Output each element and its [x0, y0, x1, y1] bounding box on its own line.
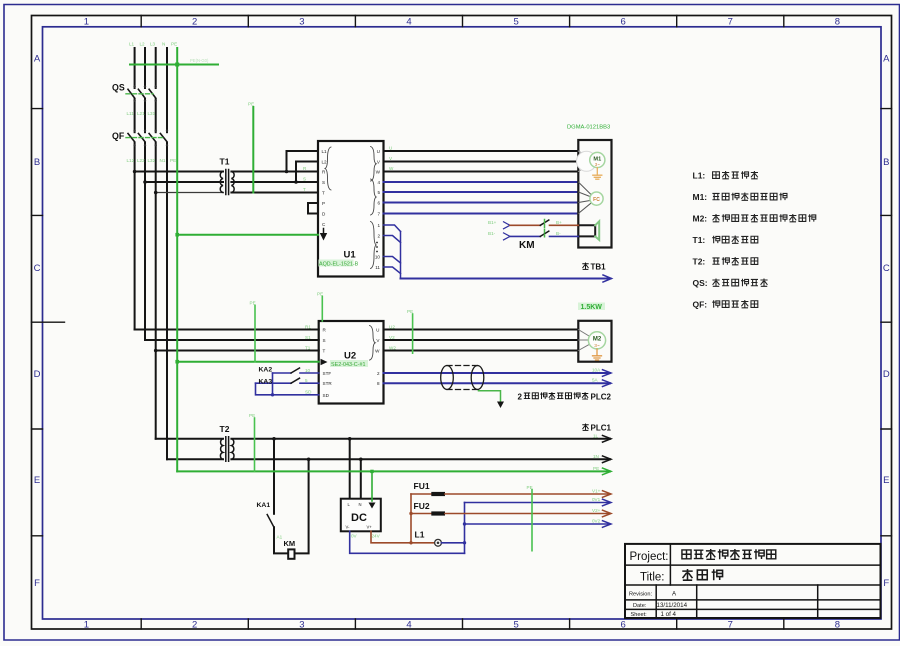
svg-text:PE: PE [407, 309, 413, 314]
svg-text:T1:: T1: [693, 235, 706, 245]
wire T1 primary bottom [156, 192, 223, 194]
U1 model strip [319, 260, 354, 267]
svg-text:A: A [883, 54, 890, 65]
junction 24V lamp [409, 541, 412, 544]
svg-text:PLC1: PLC1 [591, 424, 612, 433]
svg-text:8: 8 [377, 381, 380, 386]
wire brake - right [550, 235, 579, 237]
motor M2 [588, 332, 605, 349]
connector arrows brake supply [504, 222, 511, 229]
DC ground pin arrow [369, 503, 376, 509]
svg-text:C: C [34, 263, 41, 274]
svg-text:DC: DC [351, 512, 367, 524]
wire T1 secondary T [231, 192, 318, 194]
relay contact KA3 [256, 382, 292, 384]
svg-text:N: N [359, 502, 362, 507]
svg-text:STR: STR [323, 381, 333, 386]
junction line3/T1 [154, 191, 158, 195]
junction PE top [175, 63, 179, 67]
arrow PLC1 a [603, 436, 612, 443]
wire DC V+ brown [371, 531, 435, 543]
svg-text:PE: PE [170, 158, 176, 163]
svg-text:STF: STF [323, 371, 332, 376]
wire L2 phase vertical [144, 48, 146, 340]
svg-text:10: 10 [375, 254, 381, 259]
svg-text:S: S [323, 338, 326, 343]
U2 right brace motor [370, 326, 376, 361]
svg-text:7: 7 [728, 620, 733, 631]
svg-text:7: 7 [377, 211, 380, 216]
wire FU1 out [445, 493, 610, 495]
wire FU1 feed [411, 493, 431, 495]
junction line1/T1 [133, 170, 137, 174]
U1 ground pin arrow [323, 229, 325, 234]
junction line3/T [154, 349, 158, 353]
wire brake - [510, 235, 540, 237]
svg-text:2: 2 [377, 233, 380, 238]
wire DC V- blue [350, 531, 465, 553]
shield ground arrow [497, 402, 504, 409]
svg-text:P: P [322, 201, 325, 206]
wire FU2 out [445, 513, 610, 515]
title block [625, 544, 881, 618]
svg-text:B1-: B1- [488, 231, 496, 236]
junction tap L1 [285, 170, 289, 174]
svg-text:1N: 1N [593, 454, 599, 459]
svg-text:FU1: FU1 [414, 481, 430, 491]
svg-text:T1: T1 [220, 157, 230, 167]
M1 ground [593, 168, 602, 180]
green vertical T1 feeder [252, 107, 254, 193]
junction 24V FU2 [409, 512, 412, 515]
svg-text:T1: T1 [305, 345, 311, 350]
brake wires inside M1 [578, 225, 595, 236]
wire U1-FC encoder 5 [384, 191, 579, 193]
svg-text:FU2: FU2 [414, 501, 430, 511]
wire lamp to 0V [441, 542, 464, 544]
svg-text:D: D [34, 369, 41, 380]
svg-text:U2: U2 [389, 324, 395, 329]
U1 right brace CN1 [371, 222, 377, 269]
svg-text:T: T [303, 187, 306, 192]
svg-text:PE: PE [250, 301, 256, 306]
svg-text:A: A [34, 54, 41, 65]
net stub green M2 [412, 314, 414, 353]
svg-text:C: C [883, 263, 890, 274]
wire 0V out b [465, 523, 611, 525]
wire T2 secondary top to PLC1 [231, 438, 610, 440]
wire brake + right [550, 224, 579, 226]
svg-text:U: U [389, 146, 392, 151]
wire T1 secondary S [231, 181, 318, 183]
svg-text:T2: T2 [220, 424, 230, 434]
fuse FU2 [431, 511, 445, 515]
svg-text:0V2: 0V2 [592, 519, 601, 524]
net stub green U2 left [254, 306, 256, 362]
motor unit M2 box [578, 321, 611, 362]
svg-text:Project:: Project: [630, 551, 669, 563]
svg-text:W: W [375, 348, 380, 353]
net label TB1 [582, 262, 606, 271]
svg-text:V+: V+ [367, 525, 373, 530]
column numbers bottom [84, 620, 840, 631]
arrow 24V a [603, 491, 612, 498]
wire PE to U2 ground [177, 361, 319, 363]
svg-text:L11: L11 [127, 111, 135, 116]
wire T1 secondary R [231, 171, 318, 173]
svg-text:Sheet:: Sheet: [631, 612, 648, 618]
svg-text:N1: N1 [160, 158, 166, 163]
svg-text:QF: QF [112, 131, 125, 141]
svg-text:D: D [883, 369, 890, 380]
svg-text:3~: 3~ [595, 162, 600, 167]
legend row2 chars [712, 193, 787, 201]
svg-text:L1: L1 [322, 149, 328, 154]
arrow PLC2 b [603, 380, 612, 387]
junction 0V b [463, 522, 466, 525]
svg-text:24V: 24V [372, 534, 381, 539]
svg-text:QF:: QF: [693, 300, 708, 310]
svg-text:V2: V2 [389, 335, 395, 340]
wire U2-M2 U [384, 329, 579, 331]
svg-text:M1:: M1: [693, 192, 708, 202]
wire PE to U1 ground [177, 234, 318, 236]
wire T1 primary top [135, 171, 223, 173]
wire U1-M1 W [384, 171, 579, 173]
svg-text:W2: W2 [389, 345, 396, 350]
junction PE U1 [175, 233, 179, 237]
svg-text:QS:: QS: [693, 278, 708, 288]
svg-text:L1: L1 [415, 530, 425, 540]
brake horn [595, 221, 599, 240]
svg-text:TB1: TB1 [591, 263, 607, 272]
row ticks right band [881, 109, 892, 536]
wire T1 primary mid [145, 181, 223, 183]
svg-text:V: V [389, 156, 393, 161]
svg-text:SE2-043-C-#1: SE2-043-C-#1 [331, 362, 365, 368]
svg-text:5: 5 [305, 378, 308, 383]
legend row7 chars [712, 300, 758, 308]
svg-text:L3: L3 [150, 42, 156, 47]
power supply DC [341, 499, 381, 532]
inverter U2 [319, 321, 384, 404]
fuse FU1 [431, 492, 445, 496]
svg-text:L22: L22 [137, 158, 145, 163]
svg-text:6: 6 [621, 17, 626, 28]
svg-text:PE: PE [317, 292, 323, 297]
switch QS blades [128, 89, 156, 98]
M2 ground [593, 349, 602, 360]
wire U2-M2 V [384, 339, 579, 341]
svg-text:V1+: V1+ [592, 489, 601, 494]
svg-text:F: F [883, 578, 889, 589]
row letters right [883, 54, 890, 590]
svg-text:1: 1 [84, 620, 89, 631]
junction line2/T1 [143, 180, 147, 184]
svg-text:6: 6 [377, 200, 380, 205]
junction PE DC [370, 470, 373, 473]
svg-text:M2:: M2: [693, 214, 708, 224]
wire SD common [256, 373, 319, 395]
relay contact KA2 [273, 372, 292, 374]
breaker QF gaps [128, 133, 173, 142]
svg-text:S: S [322, 180, 325, 185]
breaker QF blades [128, 134, 167, 142]
U2 model strip [330, 360, 368, 367]
wire U1 CN1 cascade to TB1 [384, 225, 401, 279]
svg-text:10A: 10A [592, 368, 601, 373]
M1 white circle [577, 151, 597, 171]
svg-text:A: A [672, 591, 677, 598]
wire KA1 branch [273, 439, 275, 514]
svg-text:F: F [34, 578, 40, 589]
wire KM coil return [295, 459, 309, 553]
switch QS gaps [128, 89, 162, 98]
arrow PLC2 a [603, 370, 612, 377]
breaker QF terminal dots [133, 130, 168, 147]
cable note PLC2 [518, 392, 612, 401]
svg-text:7: 7 [728, 17, 733, 28]
svg-text:3: 3 [299, 620, 304, 631]
svg-text:W: W [376, 169, 381, 174]
svg-text:L2: L2 [140, 42, 146, 47]
svg-text:8: 8 [835, 620, 840, 631]
svg-text:L21: L21 [137, 111, 145, 116]
net stub green T2 [254, 418, 256, 471]
svg-text:R1: R1 [305, 324, 311, 329]
wire U1-FC encoder 7 [384, 213, 579, 215]
junction DC N [359, 458, 363, 462]
svg-text:KM: KM [284, 539, 296, 548]
wire L3-U2 T [156, 350, 319, 352]
svg-text:8: 8 [835, 17, 840, 28]
wire U1-M1 V [384, 161, 579, 163]
wire N vertical [166, 48, 168, 459]
wire U1-M1 U [384, 150, 579, 152]
arrow PLC1 b [603, 456, 612, 463]
svg-text:2: 2 [192, 620, 197, 631]
wire U2-M2 W [384, 350, 579, 352]
U2 pin labels left [323, 327, 333, 398]
U2 pin labels right [375, 327, 380, 386]
net label PLC1 [582, 423, 611, 432]
contactor coil KM [288, 549, 294, 558]
svg-text:B: B [34, 157, 40, 168]
wire L1-U2 R [135, 329, 319, 331]
column ticks bottom band [141, 619, 784, 629]
switch QS terminal dots [133, 85, 156, 102]
svg-text:N: N [162, 42, 165, 47]
svg-text:AQD-EL-1521-B: AQD-EL-1521-B [319, 262, 359, 268]
svg-text:SD: SD [305, 390, 312, 395]
FC encoder converge wires [578, 182, 590, 214]
column ticks top band [141, 16, 784, 27]
wire KA1 to KM coil [274, 527, 288, 553]
net stub green U2 top [321, 297, 323, 322]
wire L1 phase vertical [134, 48, 136, 330]
svg-text:1 of 4: 1 of 4 [661, 611, 677, 618]
wire PE drop to DC [371, 471, 373, 501]
M2 converge wires [578, 330, 589, 351]
legend row4 chars [712, 236, 758, 244]
U1 left brace [325, 147, 331, 190]
U1 encoder dots [376, 242, 378, 253]
M1 converge wires [578, 151, 590, 172]
project name chars [682, 549, 776, 560]
svg-text:S: S [303, 177, 306, 182]
svg-text:B: B [883, 157, 889, 168]
svg-text:2: 2 [192, 17, 197, 28]
svg-text:13/11/2014: 13/11/2014 [657, 602, 688, 609]
wire U1-FC encoder 4 [384, 181, 579, 183]
column numbers top [84, 17, 840, 28]
svg-text:KM: KM [519, 240, 535, 251]
svg-text:2: 2 [377, 371, 380, 376]
net stub green FU area [531, 490, 533, 551]
legend row6 chars [712, 279, 767, 287]
svg-text:DGMA-0121BB3: DGMA-0121BB3 [567, 125, 610, 131]
KM linkage [544, 220, 546, 237]
svg-text:L2: L2 [322, 159, 328, 164]
svg-text:4: 4 [406, 620, 411, 631]
U1 pin labels left [322, 149, 328, 227]
wire DC L drop [349, 439, 351, 499]
svg-text:3: 3 [299, 17, 304, 28]
transformer T2 [220, 437, 234, 462]
lamp L1 [435, 539, 442, 546]
row ticks left band [32, 109, 65, 536]
junction DC L [348, 437, 352, 441]
svg-text:3~: 3~ [594, 343, 600, 349]
wire L3 phase vertical [155, 48, 157, 439]
row letters left [34, 54, 41, 590]
motor M1 [590, 152, 605, 167]
legend row3 chars [712, 214, 815, 222]
relay contact KA1 [267, 515, 274, 528]
arrow 0V b [603, 521, 612, 528]
wire PE top distribution [130, 64, 218, 66]
svg-text:5: 5 [513, 620, 518, 631]
svg-text:Date:: Date: [633, 603, 647, 609]
sheet title chars [682, 569, 722, 580]
svg-text:KA1: KA1 [257, 502, 271, 509]
svg-text:T: T [323, 348, 326, 353]
wire PE main vertical [176, 48, 178, 471]
svg-text:SD: SD [323, 393, 330, 398]
arrow 24V b [603, 510, 612, 517]
junction 0V lamp [463, 541, 466, 544]
svg-text:1: 1 [377, 223, 380, 228]
U1 jumper P-D [308, 203, 318, 214]
wire 0V riser [464, 503, 466, 554]
transformer T1 [220, 170, 234, 195]
arrow to TB1 [603, 275, 612, 282]
svg-text:PE: PE [527, 485, 533, 490]
wire FU2 feed [411, 513, 431, 515]
wire TB1 bus [401, 278, 611, 280]
svg-text:B1+: B1+ [488, 220, 497, 225]
junction KM return [307, 458, 311, 462]
svg-text:PE: PE [248, 102, 254, 107]
servo drive U1 [318, 141, 384, 277]
tiny green net labels [127, 42, 602, 540]
contactor KM contact 2 [540, 231, 549, 236]
svg-text:Title:: Title: [640, 572, 665, 584]
svg-text:W: W [389, 166, 394, 171]
svg-text:5: 5 [377, 190, 380, 195]
wire U2 pin2 to PLC2 [384, 372, 611, 374]
encoder FC [590, 192, 603, 205]
shield ground tail [479, 391, 501, 402]
svg-text:PE: PE [593, 466, 599, 471]
switch QS linkage [126, 93, 153, 95]
arrow PE PLC1 [603, 468, 612, 475]
svg-text:T: T [322, 190, 325, 195]
junction tap L2 [294, 180, 298, 184]
svg-text:V-: V- [346, 525, 351, 530]
label M2 power [578, 303, 605, 311]
wire T2 primary top [156, 438, 223, 440]
svg-text:L1: L1 [129, 42, 135, 47]
svg-text:E: E [883, 475, 889, 486]
svg-text:L12: L12 [127, 158, 135, 163]
svg-text:1: 1 [84, 17, 89, 28]
svg-text:0V1: 0V1 [592, 497, 601, 502]
wire T2 primary bottom [167, 458, 223, 460]
svg-text:PE(N-G0): PE(N-G0) [190, 58, 209, 63]
wire U2 pin8 to PLC2 [384, 382, 611, 384]
svg-text:V2+: V2+ [592, 508, 601, 513]
svg-text:QS: QS [112, 83, 125, 93]
svg-text:KA2: KA2 [259, 367, 273, 374]
U2 ground pin arrow [321, 359, 328, 366]
contactor KM contact 1 [540, 220, 549, 225]
svg-text:S1: S1 [305, 335, 311, 340]
shielded cable symbol [441, 366, 484, 390]
breaker QF linkage [126, 137, 165, 139]
wire 24V riser [410, 494, 412, 543]
legend row1 chars [713, 171, 758, 179]
svg-text:M2: M2 [593, 337, 602, 343]
svg-text:B+: B+ [556, 220, 562, 225]
U1 pin labels right [375, 149, 381, 270]
svg-text:E: E [34, 475, 40, 486]
svg-text:0V: 0V [351, 534, 358, 539]
svg-text:T2:: T2: [693, 257, 706, 267]
U1 right brace motor [371, 147, 377, 182]
svg-text:4: 4 [406, 17, 411, 28]
svg-text:FC: FC [593, 197, 600, 203]
wire U1 L2 tap [296, 162, 318, 183]
wire U1 L1 tap [287, 151, 319, 172]
wire 0V out a [465, 502, 611, 504]
U1 right brace CN2 [371, 179, 377, 215]
legend list [693, 171, 708, 310]
junction PE U2 [175, 360, 179, 364]
svg-text:A1: A1 [277, 535, 283, 540]
junction KA1 top [272, 437, 276, 441]
svg-text:5: 5 [513, 17, 518, 28]
svg-text:4: 4 [377, 180, 380, 185]
wire U1-FC encoder 6 [384, 202, 579, 204]
legend row5 chars [712, 257, 757, 265]
svg-text:6: 6 [621, 620, 626, 631]
svg-text:U: U [376, 327, 379, 332]
svg-text:PE: PE [249, 413, 255, 418]
svg-text:1.5KW: 1.5KW [581, 304, 603, 311]
svg-text:B-: B- [556, 231, 561, 236]
svg-text:R: R [303, 166, 307, 171]
